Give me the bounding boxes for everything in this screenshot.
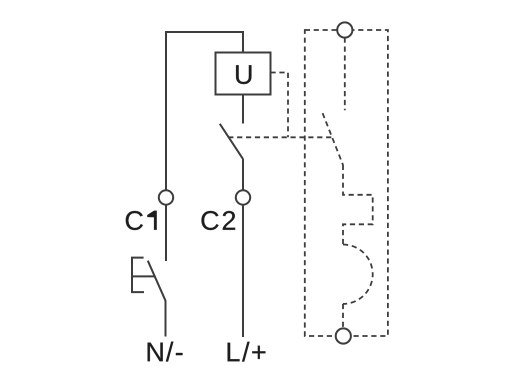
- breaker wire from top terminal (dashed): [344, 38, 346, 111]
- breaker magnetic release element (dashed semicircle): [343, 245, 373, 304]
- wire top-left L from C1 column up and across to U box top: [166, 32, 243, 190]
- wire from terminal C2 down to L/+: [242, 205, 244, 337]
- wire from S1 blade down to N/-: [165, 300, 167, 336]
- circuit breaker dashed outline box: [305, 30, 388, 336]
- breaker top terminal circle: [337, 22, 352, 37]
- label U: [236, 65, 251, 84]
- wire from S2 blade to terminal C2: [242, 158, 244, 190]
- voltage release U1 box: [216, 53, 271, 95]
- manual actuator symbol on S1: [132, 258, 154, 293]
- breaker wire and thermal overload element (dashed rectangular detour): [343, 165, 373, 245]
- dashed trip linkage bar between S2 blade and breaker blade: [228, 136, 332, 138]
- switch blade S1 (open contact above N/-): [148, 261, 166, 301]
- breaker wire to bottom terminal (dashed): [342, 304, 344, 329]
- label C1: [126, 211, 157, 230]
- terminal C1 circle: [159, 190, 173, 204]
- label L/+: [228, 342, 266, 362]
- label N/-: [148, 342, 183, 362]
- breaker switch blade (dashed): [323, 113, 343, 165]
- label C2: [202, 211, 236, 230]
- switch blade S2 (open contact above C2): [220, 124, 243, 159]
- wire from U box bottom to switch contact: [242, 95, 244, 124]
- wire from terminal C1 down to switch S1: [165, 205, 167, 261]
- breaker bottom terminal circle: [336, 328, 351, 343]
- terminal C2 circle: [236, 190, 250, 204]
- dashed linkage from U box right side down to trip bar: [271, 73, 289, 138]
